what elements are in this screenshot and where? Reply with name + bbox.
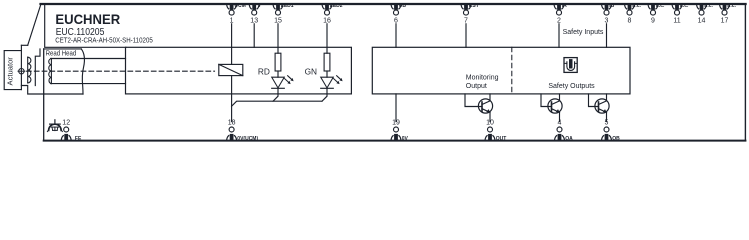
svg-text:19: 19 bbox=[392, 119, 400, 126]
control unit box (right block) bbox=[372, 47, 630, 94]
svg-text:n.c.: n.c. bbox=[704, 3, 713, 9]
pin 1 bbox=[227, 3, 246, 24]
svg-text:4: 4 bbox=[558, 119, 562, 126]
svg-text:12: 12 bbox=[62, 119, 70, 126]
pin 4 bbox=[555, 119, 574, 142]
svg-text:n.c.: n.c. bbox=[727, 3, 736, 9]
svg-text:16: 16 bbox=[323, 17, 331, 24]
pin 13 bbox=[249, 3, 261, 24]
svg-text:RD: RD bbox=[258, 67, 270, 77]
resistor R2 (GN branch) bbox=[324, 24, 330, 71]
pin 6 bbox=[391, 3, 406, 24]
wire pin3 to control unit bbox=[606, 24, 608, 48]
pin 3 bbox=[602, 3, 615, 24]
svg-text:Read Head: Read Head bbox=[46, 48, 77, 57]
pin 15 bbox=[273, 3, 294, 24]
svg-text:6: 6 bbox=[394, 17, 398, 24]
wire pin13 stub bbox=[253, 24, 255, 48]
svg-text:9: 9 bbox=[651, 17, 655, 24]
svg-text:IA: IA bbox=[562, 3, 567, 9]
housing right edge bbox=[744, 4, 746, 141]
coupling node (circle with cross) on actuator wall bbox=[18, 69, 25, 74]
svg-text:2: 2 bbox=[557, 17, 561, 24]
pin 5 bbox=[602, 119, 621, 142]
svg-text:5: 5 bbox=[605, 119, 609, 126]
LED return rail to pin 18 bbox=[232, 101, 322, 106]
pin 9 n.c. bbox=[648, 3, 665, 24]
evaluation unit box (left block) bbox=[126, 47, 352, 94]
svg-text:n.c.: n.c. bbox=[656, 3, 665, 9]
svg-text:OUT: OUT bbox=[496, 136, 507, 142]
svg-text:14: 14 bbox=[698, 17, 706, 24]
guard locking icon bbox=[564, 58, 577, 73]
pin 16 bbox=[322, 3, 343, 24]
svg-text:J: J bbox=[258, 3, 261, 9]
recess inner wall right of coil bbox=[35, 49, 40, 86]
wire pin6 to control unit bbox=[395, 24, 397, 48]
resistor R1 (RD branch) bbox=[275, 24, 281, 71]
svg-text:UB: UB bbox=[399, 3, 407, 9]
pin 19 bbox=[391, 119, 408, 142]
dashed divider inside control unit bbox=[511, 47, 513, 94]
LED RD bbox=[258, 67, 294, 89]
svg-text:17: 17 bbox=[721, 17, 729, 24]
pin 14 n.c. bbox=[697, 3, 714, 24]
read head coil L2 bbox=[49, 59, 52, 84]
actuator slot wall (vertical) bbox=[20, 45, 22, 89]
relay / monitored switching element bbox=[219, 64, 243, 75]
wire pin1 to relay bbox=[231, 24, 233, 65]
svg-text:EUCHNER: EUCHNER bbox=[55, 12, 120, 27]
LED GN bbox=[305, 67, 343, 89]
pin 7 bbox=[461, 3, 479, 24]
housing left edge below read head bbox=[43, 49, 45, 141]
svg-text:0V: 0V bbox=[402, 136, 409, 142]
wire relay to pin18 bbox=[231, 76, 233, 122]
wire pin2 to control unit bbox=[558, 24, 560, 48]
antenna band wires to evaluation unit bbox=[51, 59, 126, 84]
svg-text:1: 1 bbox=[230, 17, 234, 24]
svg-text:8: 8 bbox=[628, 17, 632, 24]
svg-text:Monitoring: Monitoring bbox=[466, 75, 499, 82]
svg-text:UCM: UCM bbox=[234, 3, 245, 9]
functional earth symbol bbox=[47, 120, 62, 132]
actuator coil L1 bbox=[28, 57, 31, 83]
pin 12 FE bbox=[61, 119, 82, 142]
housing top frame bbox=[41, 3, 746, 5]
transistor Q2 (safety output A) bbox=[541, 94, 562, 122]
pin 11 n.c. bbox=[672, 3, 689, 24]
dashed inductive coupling line to relay bbox=[27, 70, 215, 72]
svg-text:IB: IB bbox=[609, 3, 614, 9]
pin 10 bbox=[485, 119, 506, 142]
wire LED RD to rail bbox=[273, 88, 278, 101]
pin 8 n.c. bbox=[625, 3, 642, 24]
svg-text:OB: OB bbox=[612, 136, 620, 142]
svg-text:n.c.: n.c. bbox=[680, 3, 689, 9]
svg-text:RST: RST bbox=[469, 3, 479, 9]
svg-text:11: 11 bbox=[673, 17, 680, 24]
transistor Q3 (safety output B) bbox=[589, 94, 610, 122]
svg-text:LED2: LED2 bbox=[330, 3, 343, 9]
wire control unit to pin19 bbox=[395, 94, 397, 122]
transistor Q1 (monitoring output) bbox=[465, 94, 493, 122]
svg-text:GN: GN bbox=[305, 67, 317, 77]
pin 18 bbox=[227, 119, 259, 142]
svg-text:13: 13 bbox=[250, 17, 258, 24]
svg-text:CET2-AR-CRA-AH-50X-SH-110205: CET2-AR-CRA-AH-50X-SH-110205 bbox=[55, 35, 153, 44]
svg-text:n.c.: n.c. bbox=[632, 3, 641, 9]
svg-text:0V(UCM): 0V(UCM) bbox=[237, 136, 258, 142]
svg-text:OA: OA bbox=[565, 136, 573, 142]
label Monitoring Output bbox=[466, 75, 499, 90]
pin 17 n.c. bbox=[720, 3, 737, 24]
housing chamfer diagonal top-left bbox=[28, 5, 41, 46]
svg-text:Output: Output bbox=[466, 83, 487, 90]
svg-text:Safety Inputs: Safety Inputs bbox=[563, 29, 604, 36]
wire pin7 to control unit bbox=[465, 24, 467, 48]
svg-text:10: 10 bbox=[486, 119, 494, 126]
wire LED GN to rail bbox=[322, 88, 327, 101]
svg-text:LED1: LED1 bbox=[281, 3, 294, 9]
svg-text:15: 15 bbox=[274, 17, 282, 24]
EUCHNER logo block bbox=[45, 4, 153, 47]
svg-text:7: 7 bbox=[464, 17, 468, 24]
actuator box bbox=[4, 51, 21, 90]
recess bottom step bbox=[21, 86, 43, 95]
housing recess step to actuator slot bbox=[21, 44, 27, 46]
read head box outline with wavy break edge bbox=[44, 48, 85, 94]
svg-text:3: 3 bbox=[605, 17, 609, 24]
svg-text:FE: FE bbox=[75, 136, 82, 142]
svg-text:Safety Outputs: Safety Outputs bbox=[548, 83, 595, 90]
svg-text:18: 18 bbox=[228, 119, 236, 126]
svg-text:Actuator: Actuator bbox=[5, 57, 14, 86]
pin 2 bbox=[554, 3, 567, 24]
housing bottom frame bbox=[44, 140, 746, 142]
